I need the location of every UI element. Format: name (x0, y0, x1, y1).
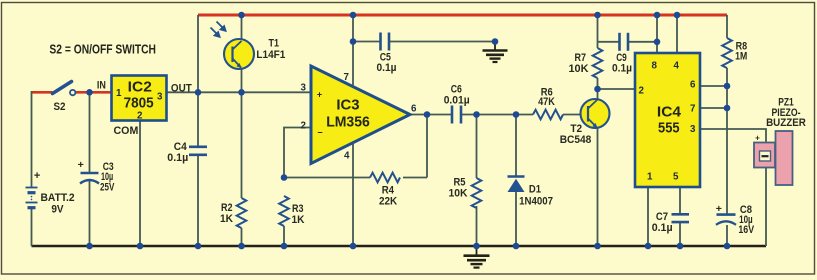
wire R7 bottom to T2 collector node (597, 78, 599, 99)
C5 value 0.1u (377, 62, 397, 74)
junction pin2 node/R4 (281, 174, 288, 181)
battery label BATT.2 (41, 192, 75, 204)
capacitor C4 (189, 147, 207, 155)
svg-text:5: 5 (673, 172, 679, 183)
PZ1 label BUZZER (766, 117, 806, 129)
IC3 pin 3 label (301, 83, 307, 94)
wire IC2 COM to ground (139, 121, 141, 246)
svg-text:2: 2 (301, 121, 307, 132)
PZ1 label (778, 97, 794, 109)
label OUT (171, 83, 192, 95)
resistor R5 10K (472, 178, 482, 208)
T1 light arrows (211, 22, 227, 38)
C7 label (656, 211, 668, 223)
svg-text:0.01µ: 0.01µ (444, 94, 470, 106)
wire IC4 pin4 to Vcc (676, 15, 678, 53)
diode D1 1N4007 (508, 177, 525, 193)
junction ground/C4 (195, 243, 202, 250)
wire red battery+ to switch S2 (32, 91, 53, 94)
junction ground/R5 (473, 243, 480, 250)
wire C7 to ground (679, 223, 681, 247)
ground (C5 branch) (483, 42, 508, 63)
R7 label (575, 52, 587, 64)
svg-text:−: − (317, 128, 322, 138)
svg-text:S2: S2 (54, 101, 66, 113)
T2 value BC548 (560, 134, 592, 146)
C3 label (103, 161, 114, 173)
wire Vcc drop to OUT node (197, 15, 199, 146)
wire D1 to ground (515, 192, 517, 246)
R4 label (382, 184, 395, 196)
capacitor C5 (381, 33, 390, 51)
IC2 pin 2 label (137, 111, 143, 122)
C9 label (616, 52, 627, 64)
D1 value 1N4007 (519, 195, 553, 207)
wire R8 bottom through pins 6,7 to C8 (726, 68, 728, 214)
R6 label (541, 87, 553, 99)
wire op-amp pin4 to ground (352, 144, 354, 246)
wire Vcc red rail (top) (198, 14, 727, 17)
wire R5 top lead (476, 115, 478, 179)
T1 value L14F1 (256, 49, 285, 61)
wire T2 emitter to ground (597, 128, 599, 247)
timer IC4 555 (635, 53, 700, 187)
label COM (114, 125, 139, 137)
R5 label (454, 177, 466, 189)
C3 value 10u (101, 171, 113, 183)
junction ground/IC4 pin1 (645, 243, 652, 250)
IC4 pin 5 label (673, 172, 679, 183)
svg-text:4: 4 (344, 151, 350, 162)
svg-text:22K: 22K (379, 196, 397, 208)
svg-text:25V: 25V (100, 182, 115, 194)
T1 label (269, 38, 280, 50)
svg-text:IC2: IC2 (128, 79, 152, 96)
wire battery negative lead (31, 208, 33, 247)
svg-text:2: 2 (639, 86, 645, 97)
svg-text:S2 = ON/OFF SWITCH: S2 = ON/OFF SWITCH (49, 41, 156, 56)
resistor R6 47K (533, 110, 563, 120)
svg-text:7: 7 (690, 104, 696, 115)
junction C9/pin8 line (654, 39, 661, 46)
svg-text:4: 4 (674, 61, 680, 72)
wire op-amp output to C6 (410, 114, 452, 116)
junction C5/ground (492, 38, 499, 45)
switch label S2 (54, 101, 66, 113)
wire IC4 pin7 to R8 node (701, 107, 728, 109)
resistor R7 10K (593, 48, 603, 78)
R5 value 10K (449, 188, 468, 200)
junction ground/COM (137, 243, 144, 250)
D1 label (529, 184, 541, 196)
capacitor C8 (electrolytic) (716, 215, 736, 225)
wire IC4 pin8 to Vcc (656, 15, 658, 53)
capacitor C9 (620, 33, 629, 51)
junction C5/pin7 line (350, 38, 357, 45)
IC4 pin 2 label (639, 86, 645, 97)
wire C3 top lead (89, 92, 91, 172)
junction ground/D1 (513, 243, 520, 250)
R8 label (736, 41, 748, 53)
junction ground/T2 emitter (594, 243, 601, 250)
wire C9 branch (598, 41, 658, 43)
junction ground/C3 (86, 243, 93, 250)
regulator IC2 7805 (112, 76, 167, 121)
svg-text:3: 3 (301, 83, 307, 94)
R2 value 1K (220, 213, 233, 225)
svg-text:BC548: BC548 (560, 134, 592, 146)
R3 value 1K (292, 214, 305, 226)
wire R6 to T2 base (563, 114, 587, 116)
wire pin3 node down to R2 (241, 92, 243, 198)
battery label 9V (51, 204, 64, 216)
svg-text:7: 7 (344, 72, 350, 83)
svg-text:10K: 10K (569, 63, 589, 75)
svg-text:+: + (34, 170, 40, 182)
wire D1 top lead (515, 115, 517, 177)
IC3 pin 6 label (411, 104, 417, 115)
R8 value 1M (735, 51, 747, 63)
capacitor C7 (672, 214, 690, 222)
piezo buzzer PZ1 (754, 131, 793, 185)
svg-text:9V: 9V (51, 204, 64, 216)
C3 plus sign (78, 159, 84, 171)
junction output/feedback (424, 111, 431, 118)
svg-text:0.1µ: 0.1µ (652, 222, 673, 234)
IC3 pin 2 label (301, 121, 307, 132)
ground (bottom, at R5) (464, 246, 490, 268)
battery BATT.2 (26, 188, 38, 208)
wire piezo PZ1 to ground (765, 167, 767, 246)
wire feedback riser to output (426, 115, 428, 178)
C9 value 0.1u (612, 62, 632, 74)
wire IC4 pin5 to C7 (679, 187, 681, 214)
IC4 pin 8 label (652, 61, 658, 72)
svg-text:+: + (755, 134, 760, 143)
PZ1 label PIEZO- (772, 107, 801, 119)
resistor R4 22K (370, 173, 400, 183)
IC4 pin 3 label (690, 124, 696, 135)
junction ground/C8 (724, 243, 731, 250)
svg-text:D1: D1 (529, 184, 541, 196)
svg-text:IC4: IC4 (657, 104, 682, 121)
svg-text:0.1µ: 0.1µ (612, 62, 632, 74)
C7 value 0.1u (652, 222, 673, 234)
junction Vcc/IC4 pin4 (674, 12, 681, 19)
svg-text:7805: 7805 (124, 95, 154, 112)
junction IC4 pin7/R8 line (724, 105, 731, 112)
C8 plus sign (716, 203, 722, 215)
C4 value 0.1u (167, 152, 188, 164)
switch S2 (53, 82, 76, 96)
op-amp IC3 LM356 (311, 66, 410, 164)
svg-text:3: 3 (157, 92, 163, 103)
R6 value 47K (538, 96, 555, 108)
svg-text:IC3: IC3 (336, 96, 359, 113)
wire IC4 pin6 to R8 node (701, 85, 728, 87)
svg-text:T1: T1 (269, 38, 280, 50)
R3 label (292, 203, 304, 215)
svg-text:BUZZER: BUZZER (766, 117, 806, 129)
svg-text:+: + (78, 159, 84, 171)
R7 value 10K (569, 63, 589, 75)
junction IC4 pin6/R8 line (724, 83, 731, 90)
svg-text:1K: 1K (292, 214, 305, 226)
resistor R8 1M (722, 38, 732, 68)
wire R8 top to Vcc (726, 15, 728, 38)
IC4 pin 7 label (690, 104, 696, 115)
junction Vcc/IC4 pin8 (654, 12, 661, 19)
junction signal/D1 (513, 111, 520, 118)
svg-text:LM356: LM356 (326, 114, 370, 131)
C8 value 10u (739, 214, 753, 226)
svg-text:R4: R4 (382, 184, 395, 196)
junction switch/C3 (86, 89, 93, 96)
wire R5 to ground (476, 206, 478, 246)
wire R4 feedback horizontal (284, 177, 427, 179)
C5 label (380, 52, 391, 64)
svg-text:COM: COM (114, 125, 139, 137)
label IN (97, 79, 106, 91)
svg-text:L14F1: L14F1 (256, 49, 285, 61)
phototransistor T1 (224, 39, 254, 69)
capacitor C3 (electrolytic) (80, 173, 99, 184)
wire T1 collector to Vcc (241, 15, 243, 40)
svg-text:+: + (716, 203, 722, 215)
svg-text:1: 1 (647, 172, 653, 183)
transistor T2 BC548 (581, 99, 610, 128)
junction ground/R3 (281, 243, 288, 250)
wire C3 bottom lead (89, 181, 91, 246)
wire op-amp pin7 to Vcc (352, 15, 354, 85)
wire IC4 pin1 to ground (647, 187, 649, 246)
svg-text:47K: 47K (538, 96, 555, 108)
junction R7/T2 collector (594, 86, 601, 93)
junction Vcc/T1 (238, 12, 245, 19)
wire T2 collector node to IC4 pin2 (598, 88, 636, 90)
C8 value 16V (738, 224, 754, 236)
IC2 pin 1 label (116, 88, 122, 99)
svg-text:1K: 1K (220, 213, 233, 225)
svg-text:0.1µ: 0.1µ (377, 62, 397, 74)
svg-text:OUT: OUT (171, 83, 192, 95)
junction Vcc/pin7 (350, 12, 357, 19)
IC2 pin 3 label (157, 92, 163, 103)
svg-text:6: 6 (690, 80, 696, 91)
junction OUT/C4 (195, 89, 202, 96)
wire op-amp pin2 to R3/R4 node (284, 128, 311, 178)
svg-text:BATT.2: BATT.2 (41, 192, 75, 204)
resistor R2 1K (237, 198, 247, 228)
T2 label (570, 123, 582, 135)
svg-text:1: 1 (116, 88, 122, 99)
IC4 pin 6 label (690, 80, 696, 91)
capacitor C6 (452, 106, 461, 124)
wire ground rail (bottom) (32, 245, 767, 248)
svg-text:6: 6 (411, 104, 417, 115)
wire R7 top to Vcc (597, 15, 599, 48)
junction signal/R5 (473, 111, 480, 118)
svg-text:0.1µ: 0.1µ (167, 152, 188, 164)
C8 label (740, 204, 752, 216)
svg-text:1M: 1M (735, 51, 747, 63)
svg-text:555: 555 (658, 120, 680, 137)
wire IC2 OUT to op-amp pin3 (167, 91, 311, 93)
IC4 pin 1 label (647, 172, 653, 183)
wire IC4 pin3 to piezo PZ1 (701, 129, 767, 143)
IC3 pin 7 label (344, 72, 350, 83)
battery plus sign (34, 170, 40, 182)
junction Vcc/R7 (594, 12, 601, 19)
wire C4 to ground (197, 156, 199, 246)
svg-text:2: 2 (137, 111, 143, 122)
C6 label (451, 84, 462, 96)
junction T1 emitter/pin3 (238, 89, 245, 96)
wire battery positive lead (31, 91, 33, 188)
note S2 = ON/OFF SWITCH (49, 41, 156, 56)
wire C6 to R6 (462, 114, 534, 116)
junction ground/C7 (677, 243, 684, 250)
svg-text:IN: IN (97, 79, 106, 91)
wire C8 to ground (726, 225, 728, 246)
svg-text:+: + (317, 90, 322, 100)
svg-text:16V: 16V (738, 224, 754, 236)
C6 value 0.01u (444, 94, 470, 106)
svg-text:8: 8 (652, 61, 658, 72)
wire red switch S2 to IC2 IN (76, 91, 113, 94)
R4 value 22K (379, 196, 397, 208)
svg-text:10K: 10K (449, 188, 468, 200)
PZ1 plus sign (755, 134, 760, 143)
IC3 pin 4 label (344, 151, 350, 162)
resistor R3 1K (279, 196, 289, 226)
wire R2 to ground (241, 228, 243, 246)
svg-text:1N4007: 1N4007 (519, 195, 553, 207)
wire R3 to ground (283, 226, 285, 246)
wire C5 branch to ground (353, 41, 495, 43)
C3 value 25V (100, 182, 115, 194)
R2 label (221, 202, 233, 214)
IC4 pin 4 label (674, 61, 680, 72)
junction ground/R2 (238, 243, 245, 250)
junction ground/pin4 (350, 243, 357, 250)
svg-text:3: 3 (690, 124, 696, 135)
wire T1 emitter to pin3 node (241, 69, 243, 93)
C4 label (174, 141, 188, 153)
